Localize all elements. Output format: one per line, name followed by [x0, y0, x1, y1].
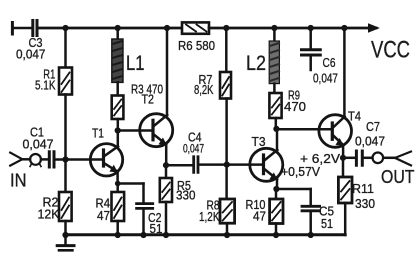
- svg-text:T2: T2: [142, 92, 155, 107]
- wire R10 top lead: [275, 189, 278, 199]
- resistor R6: [182, 22, 209, 33]
- resistor R2: [59, 192, 72, 221]
- resistor R11: [338, 177, 352, 203]
- svg-text:0,047: 0,047: [16, 47, 46, 62]
- node: rail / C6: [308, 25, 314, 31]
- resistor R3: [112, 96, 124, 120]
- capacitor C5: [302, 206, 320, 211]
- wire node to T4 base: [276, 128, 332, 131]
- node: ground rail / R10: [273, 232, 279, 238]
- capacitor C3: [33, 21, 37, 36]
- wire C1 to T1 base: [56, 158, 104, 161]
- wire top rail left of R6: [39, 27, 183, 30]
- wire T4 emitter down: [342, 145, 345, 158]
- wire ground rail (bottom): [66, 233, 346, 236]
- node: input / R1 R2: [62, 156, 68, 162]
- input terminal (top-left): [11, 23, 14, 35]
- transistor T4: [319, 115, 352, 148]
- IN jack circle: [30, 154, 41, 165]
- node: R9 / T3 collector / T4 base: [273, 126, 279, 132]
- wire emitter node to C2: [117, 182, 143, 185]
- wire R7 top lead: [225, 28, 228, 72]
- resistor R8: [220, 199, 235, 223]
- capacitor C1: [49, 152, 54, 167]
- node: ground rail / R8: [224, 232, 230, 238]
- wire T4 collector lead: [343, 28, 346, 115]
- node: ground rail / R4: [115, 232, 121, 238]
- svg-text:C4: C4: [188, 130, 202, 145]
- svg-text:VCC: VCC: [371, 37, 410, 64]
- node: ground rail / R5: [163, 232, 169, 238]
- wire T1 emitter down: [116, 171, 119, 184]
- svg-text:0,047: 0,047: [183, 144, 204, 156]
- wire L2 to R9: [273, 84, 276, 93]
- resistor R4: [112, 192, 125, 221]
- resistor R7: [220, 72, 231, 99]
- svg-text:47: 47: [253, 209, 266, 224]
- svg-text:51: 51: [150, 221, 163, 236]
- svg-text:T3: T3: [252, 134, 266, 149]
- node: rail / T2 collector: [164, 25, 170, 31]
- node: rail / T4 collector: [341, 25, 347, 31]
- wire R1 top lead: [64, 28, 67, 68]
- node: R3 / T1 collector / T2 base: [115, 127, 121, 133]
- wire C6 bottom stub: [309, 57, 312, 71]
- svg-text:330: 330: [176, 188, 196, 203]
- wire C7 to OUT jack: [364, 157, 373, 160]
- svg-text:L1: L1: [126, 52, 145, 75]
- capacitor C4: [194, 157, 198, 173]
- svg-text:47: 47: [97, 208, 110, 223]
- node: ground rail / C2: [140, 232, 146, 238]
- wire C2 bottom lead: [142, 210, 145, 235]
- svg-text:T4: T4: [348, 109, 361, 124]
- svg-text:L2: L2: [246, 52, 266, 75]
- wire top rail right of R6: [209, 27, 376, 30]
- svg-text:R6 580: R6 580: [178, 38, 215, 53]
- svg-text:8,2K: 8,2K: [194, 82, 214, 97]
- node: T4 emitter / C7 / R11: [340, 155, 346, 161]
- transistor T1: [90, 144, 122, 176]
- transistor T3: [250, 148, 283, 181]
- wire T2 emitter down: [165, 144, 168, 166]
- VCC arrowhead: [369, 24, 379, 32]
- svg-text:+0,57V: +0,57V: [281, 164, 320, 179]
- node: rail / R7: [223, 25, 229, 31]
- svg-text:330: 330: [355, 196, 375, 211]
- wire L1 to R3: [116, 82, 119, 95]
- node: T3 base / R7 R8: [224, 162, 230, 168]
- svg-text:0,047: 0,047: [313, 71, 338, 86]
- svg-text:T1: T1: [92, 126, 104, 141]
- ground: [64, 235, 67, 244]
- wire: [13, 27, 31, 30]
- wire R7 bottom to R8 top: [225, 99, 228, 200]
- svg-text:IN: IN: [10, 171, 27, 191]
- wire node to T2 base: [118, 129, 153, 132]
- wire R1 bottom to input node: [64, 95, 67, 193]
- wire T3 emitter down: [276, 179, 279, 190]
- transistor T2: [140, 114, 173, 147]
- wire jack to C1: [41, 158, 48, 161]
- wire R4 top lead: [116, 184, 119, 193]
- OUT jack circle: [373, 153, 384, 164]
- capacitor C2: [137, 204, 153, 209]
- resistor R5: [160, 178, 172, 202]
- wire L2 top lead: [273, 28, 276, 41]
- wire C4 to T3 base: [199, 163, 263, 166]
- node: T1 emitter / R4 / C2: [115, 181, 121, 187]
- node: T2 emitter / R5 / C4: [163, 162, 169, 168]
- wire R11 top lead: [342, 158, 345, 177]
- wire R2 bottom lead: [64, 221, 67, 235]
- wire R5 top lead: [165, 165, 168, 178]
- wire R11 bottom lead: [344, 203, 347, 235]
- capacitor C7: [356, 151, 362, 165]
- wire T2 collector lead: [166, 28, 169, 115]
- IN terminal fork: [10, 153, 22, 166]
- wire R3 bottom to node: [117, 119, 120, 147]
- capacitor C6: [302, 50, 321, 55]
- wire R8 bottom lead: [226, 223, 229, 235]
- svg-text:C7: C7: [366, 119, 380, 134]
- wire emitter node to C5: [276, 188, 311, 191]
- resistor R1: [59, 68, 72, 95]
- wire R5 bottom lead: [165, 202, 168, 235]
- svg-text:470: 470: [284, 99, 306, 114]
- svg-text:0,047: 0,047: [23, 137, 54, 152]
- wire emitter node to C4: [166, 164, 192, 167]
- node: rail / L2: [271, 25, 277, 31]
- svg-text:OUT: OUT: [381, 167, 415, 187]
- wire jack to fork: [383, 157, 395, 160]
- inductor L1: [112, 39, 123, 82]
- wire C5 bottom lead: [309, 212, 312, 235]
- inductor L2: [269, 41, 279, 84]
- svg-text:12K: 12K: [38, 207, 60, 222]
- OUT terminal fork: [395, 152, 411, 166]
- svg-text:C6: C6: [323, 55, 336, 70]
- node: T3 emitter / R10 / C5: [273, 186, 279, 192]
- node: ground rail / R2: [62, 232, 68, 238]
- wire L1 top lead: [116, 28, 119, 39]
- wire C5 top lead: [309, 189, 312, 205]
- svg-text:5.1K: 5.1K: [35, 78, 56, 93]
- svg-text:R11: R11: [352, 181, 374, 196]
- node: rail / L1: [115, 25, 121, 31]
- resistor R9: [269, 93, 281, 118]
- resistor R10: [270, 199, 283, 224]
- wire emitter node to C7: [343, 157, 355, 160]
- wire R10 bottom lead: [275, 224, 278, 236]
- wire fork to IN jack: [22, 158, 31, 161]
- svg-text:0,047: 0,047: [355, 134, 385, 149]
- wire R4 bottom lead: [116, 221, 119, 235]
- wire C2 top lead: [142, 184, 145, 203]
- wire C6 top lead: [309, 28, 312, 49]
- wire T3 collector up: [276, 129, 279, 151]
- node: ground rail / C5: [308, 232, 314, 238]
- svg-text:1,2K: 1,2K: [199, 209, 220, 224]
- node: rail / R1: [62, 25, 68, 31]
- svg-text:51: 51: [321, 216, 333, 231]
- wire R9 bottom to node: [275, 118, 278, 129]
